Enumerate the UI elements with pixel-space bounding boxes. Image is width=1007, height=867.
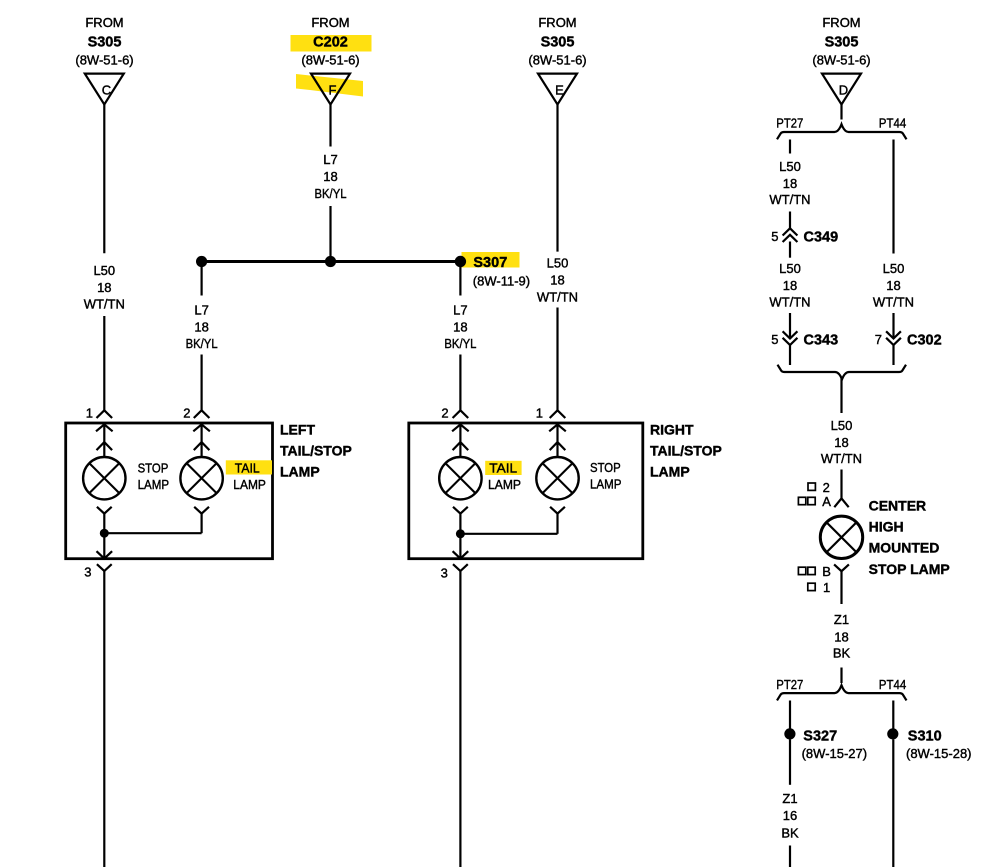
svg-text:2: 2 (441, 406, 448, 421)
highlighter swoosh over triangle F (296, 74, 363, 97)
svg-text:L7: L7 (323, 152, 337, 167)
wire to connector C349 (789, 212, 791, 229)
svg-text:PT27: PT27 (776, 115, 803, 130)
svg-text:Z1: Z1 (782, 791, 797, 806)
wire left branch to splice S327 (789, 701, 791, 729)
svg-text:BK/YL: BK/YL (186, 336, 218, 351)
svg-text:WT/TN: WT/TN (821, 451, 862, 466)
lamp symbol CENTER HIGH MOUNTED STOP LAMP (820, 516, 862, 558)
lamp symbol TAIL (right box) (439, 457, 481, 499)
wire from triangle D down (840, 105, 842, 120)
svg-text:L50: L50 (883, 261, 905, 276)
svg-text:Z1: Z1 (834, 612, 849, 627)
wire right branch below top brace (892, 140, 894, 254)
svg-text:(8W-11-9): (8W-11-9) (473, 274, 530, 289)
svg-text:LAMP: LAMP (590, 477, 622, 492)
lamp symbol STOP (right box) (536, 457, 578, 499)
wire from junction to pin 3 (left box) (97, 533, 113, 558)
svg-text:S310: S310 (908, 729, 942, 745)
svg-text:F: F (329, 83, 337, 98)
svg-text:5: 5 (771, 229, 778, 244)
svg-text:18: 18 (834, 630, 848, 645)
CHMSL pin 1 cavity marker (808, 580, 830, 595)
connector triangle F (311, 74, 350, 105)
svg-text:WT/TN: WT/TN (537, 289, 578, 304)
box title LEFT TAIL/STOP LAMP (280, 422, 352, 480)
brace split bottom (777, 685, 907, 700)
svg-text:WT/TN: WT/TN (873, 295, 914, 310)
wire column F down to bus (329, 206, 331, 262)
pin 1 terminal inside box (96, 424, 113, 456)
svg-text:16: 16 (783, 808, 797, 823)
svg-text:MOUNTED: MOUNTED (869, 540, 940, 556)
svg-text:C202: C202 (313, 34, 348, 50)
svg-text:STOP LAMP: STOP LAMP (869, 561, 950, 577)
svg-text:3: 3 (441, 566, 448, 581)
svg-text:L50: L50 (779, 261, 801, 276)
pin 1 connector half (right box) (536, 406, 566, 421)
wire below left junction dot (201, 262, 203, 296)
brace merge bottom (778, 365, 907, 380)
svg-text:FROM: FROM (311, 15, 349, 30)
connector triangle E (538, 74, 577, 105)
pin 3 connector half (left box) (84, 564, 111, 579)
wire from left pin 3 to bottom edge (103, 571, 105, 867)
brace split top (777, 124, 907, 139)
svg-text:D: D (839, 83, 848, 98)
wire label L50 18 WT/TN (branch PT27 upper) (769, 159, 810, 207)
svg-text:FROM: FROM (538, 15, 576, 30)
node F source label FROM C202 (8W-51-6), highlighted (291, 15, 372, 68)
svg-text:E: E (555, 83, 564, 98)
svg-text:FROM: FROM (85, 15, 123, 30)
wire below STOP lamp (right box) (550, 507, 565, 534)
splice S307 dot (455, 256, 466, 267)
svg-text:LAMP: LAMP (233, 477, 266, 492)
connector C302 (in-line, pointing down) (875, 331, 942, 348)
svg-text:18: 18 (886, 278, 900, 293)
svg-text:RIGHT: RIGHT (650, 422, 694, 438)
svg-text:C: C (102, 83, 111, 98)
svg-text:3: 3 (84, 565, 91, 580)
connector triangle C (85, 74, 124, 105)
wire column E to right lamp pin 1 (556, 308, 558, 411)
svg-text:BK/YL: BK/YL (444, 336, 476, 351)
svg-text:(8W-51-6): (8W-51-6) (301, 53, 359, 68)
svg-text:TAIL/STOP: TAIL/STOP (280, 443, 352, 459)
node E source label FROM S305 (8W-51-6) (528, 15, 586, 68)
pin 2 connector half (right box) (441, 406, 468, 421)
wire below splice S307 (459, 262, 461, 296)
svg-text:BK: BK (833, 646, 851, 661)
CHMSL pin A connector half (834, 498, 848, 507)
pin 2 connector half (left box) (183, 406, 209, 421)
label TAIL LAMP highlighted (left box) (226, 460, 272, 492)
svg-text:(8W-51-6): (8W-51-6) (75, 53, 133, 68)
svg-text:L50: L50 (93, 263, 115, 278)
wire from triangle C down (103, 105, 105, 254)
svg-text:S305: S305 (825, 34, 859, 50)
wire left branch below top brace (789, 140, 791, 154)
wire from right pin 3 to bottom edge (459, 571, 461, 867)
svg-text:5: 5 (771, 332, 778, 347)
svg-text:18: 18 (323, 169, 337, 184)
svg-text:LAMP: LAMP (138, 477, 170, 492)
svg-text:L7: L7 (453, 302, 467, 317)
svg-text:TAIL: TAIL (235, 460, 260, 475)
CHMSL pin B cavity marker (798, 564, 830, 579)
pin 3 connector half (right box) (441, 564, 468, 580)
svg-text:LAMP: LAMP (650, 463, 690, 479)
wire label L7 18 BK/YL (column F) (315, 152, 347, 201)
splice S310 label (906, 729, 972, 762)
svg-text:1: 1 (86, 406, 93, 421)
svg-text:(8W-15-28): (8W-15-28) (906, 746, 972, 761)
svg-text:TAIL: TAIL (489, 460, 517, 475)
CHMSL pin 2 cavity marker (808, 480, 830, 495)
svg-text:L50: L50 (547, 256, 569, 271)
svg-text:WT/TN: WT/TN (769, 295, 810, 310)
left lamp assembly box (66, 423, 273, 559)
svg-text:1: 1 (536, 406, 543, 421)
svg-text:18: 18 (97, 280, 111, 295)
svg-text:A: A (822, 494, 831, 509)
wire to connector C302 (892, 313, 894, 338)
wire below merge brace (840, 378, 842, 413)
svg-text:C343: C343 (804, 333, 839, 349)
wire S310 branch to bottom edge (892, 740, 894, 867)
svg-text:(8W-51-6): (8W-51-6) (812, 53, 870, 68)
junction dot left (196, 256, 207, 267)
wire label L50 18 WT/TN (CHMSL feed) (821, 418, 862, 466)
svg-text:(8W-51-6): (8W-51-6) (528, 53, 586, 68)
wire right branch to right lamp pin 2 (459, 355, 461, 411)
wire left branch to left lamp pin 2 (201, 355, 203, 411)
svg-text:18: 18 (783, 278, 797, 293)
wire below C302 (892, 345, 894, 365)
wire label L7 18 BK/YL (left branch) (186, 302, 218, 351)
svg-text:PT27: PT27 (776, 677, 803, 692)
svg-text:18: 18 (550, 273, 564, 288)
svg-text:L7: L7 (194, 302, 208, 317)
svg-text:18: 18 (834, 435, 848, 450)
lamp symbol STOP (left box) (83, 457, 125, 499)
wire to ground brace (840, 668, 842, 684)
svg-text:TAIL/STOP: TAIL/STOP (650, 443, 722, 459)
svg-text:(8W-15-27): (8W-15-27) (802, 746, 868, 761)
wire to CHMSL pin A (840, 470, 842, 499)
svg-text:1: 1 (823, 580, 830, 595)
wire label L50 18 WT/TN (branch PT27 lower) (769, 261, 810, 310)
wire from triangle E down (556, 105, 558, 252)
wire S327 branch to bottom edge (789, 846, 791, 867)
svg-text:HIGH: HIGH (869, 519, 904, 535)
svg-text:WT/TN: WT/TN (769, 192, 810, 207)
connector C343 (in-line, pointing down) (771, 331, 838, 348)
connector triangle D (822, 74, 861, 105)
CHMSL pin A cavity marker (798, 494, 831, 509)
label TAIL LAMP highlighted (right box) (485, 460, 521, 492)
svg-text:S305: S305 (88, 34, 122, 50)
svg-text:STOP: STOP (138, 460, 169, 475)
svg-text:S305: S305 (541, 34, 575, 50)
label STOP LAMP (left box) (138, 460, 170, 492)
bus wire between splices (202, 260, 461, 263)
svg-text:FROM: FROM (822, 15, 860, 30)
wire label L50 18 WT/TN (column C) (84, 263, 125, 312)
svg-text:LAMP: LAMP (488, 477, 521, 492)
pin 1 connector half (left box) (86, 406, 112, 421)
splice S327 label (802, 729, 868, 762)
svg-text:L50: L50 (779, 159, 801, 174)
svg-text:2: 2 (823, 480, 830, 495)
splice S310 dot (887, 728, 898, 739)
svg-text:18: 18 (194, 319, 208, 334)
title CENTER HIGH MOUNTED STOP LAMP (869, 497, 950, 577)
lamp symbol TAIL (left box) (180, 457, 222, 499)
svg-text:LEFT: LEFT (280, 422, 315, 438)
svg-text:PT44: PT44 (879, 115, 906, 130)
wire below C349 (789, 242, 791, 258)
pin 2 terminal inside box (right) (452, 424, 469, 456)
pin 2 terminal inside box (193, 424, 210, 456)
wire column C to left lamp pin 1 (103, 316, 105, 410)
box title RIGHT TAIL/STOP LAMP (650, 422, 722, 480)
svg-text:L50: L50 (831, 418, 853, 433)
svg-text:BK: BK (781, 826, 799, 841)
wire right branch to splice S310 (892, 701, 894, 729)
svg-text:C349: C349 (804, 230, 839, 246)
wire below C343 (789, 345, 791, 365)
svg-text:S307: S307 (473, 255, 507, 271)
splice S327 dot (784, 728, 795, 739)
wire label Z1 16 BK (781, 791, 799, 841)
wire label L7 18 BK/YL (right branch) (444, 302, 476, 351)
right lamp assembly box (409, 423, 643, 559)
node C source label FROM S305 (8W-51-6) (75, 15, 133, 68)
svg-text:PT44: PT44 (879, 677, 906, 692)
node D source label FROM S305 (8W-51-6) (812, 15, 870, 68)
svg-text:WT/TN: WT/TN (84, 297, 125, 312)
junction dot middle (325, 256, 336, 267)
pin 1 terminal inside box (right) (549, 424, 566, 456)
svg-text:LAMP: LAMP (280, 463, 320, 479)
connector C349 (in-line, pointing up) (771, 228, 838, 245)
wire label Z1 18 BK (833, 612, 851, 660)
label STOP LAMP (right box) (590, 460, 622, 492)
wire from junction to pin 3 (right box) (453, 534, 469, 559)
svg-text:CENTER: CENTER (869, 497, 927, 513)
wire label L50 18 WT/TN (branch PT44) (873, 261, 914, 310)
svg-text:STOP: STOP (590, 460, 621, 475)
junction dot left box (100, 529, 109, 538)
wire below STOP lamp (left box) (97, 507, 112, 533)
wire to connector C343 (789, 313, 791, 338)
junction wire inside right box (460, 533, 557, 535)
wire below S327 (789, 740, 791, 785)
wire from triangle F down (329, 105, 331, 147)
svg-text:S327: S327 (803, 729, 837, 745)
svg-text:BK/YL: BK/YL (315, 186, 347, 201)
svg-text:2: 2 (183, 406, 190, 421)
svg-text:C302: C302 (907, 333, 942, 349)
wire below TAIL lamp (left box) (194, 507, 209, 533)
svg-text:B: B (822, 564, 831, 579)
wire below TAIL lamp (right box) (453, 507, 468, 534)
svg-text:18: 18 (783, 176, 797, 191)
junction wire inside left box (104, 532, 201, 534)
wire label L50 18 WT/TN (column E) (537, 256, 578, 305)
junction dot right box (456, 529, 465, 538)
splice S307 label, highlighted (462, 252, 531, 289)
CHMSL pin B connector half (834, 564, 849, 604)
svg-text:18: 18 (453, 319, 467, 334)
svg-text:7: 7 (875, 332, 882, 347)
